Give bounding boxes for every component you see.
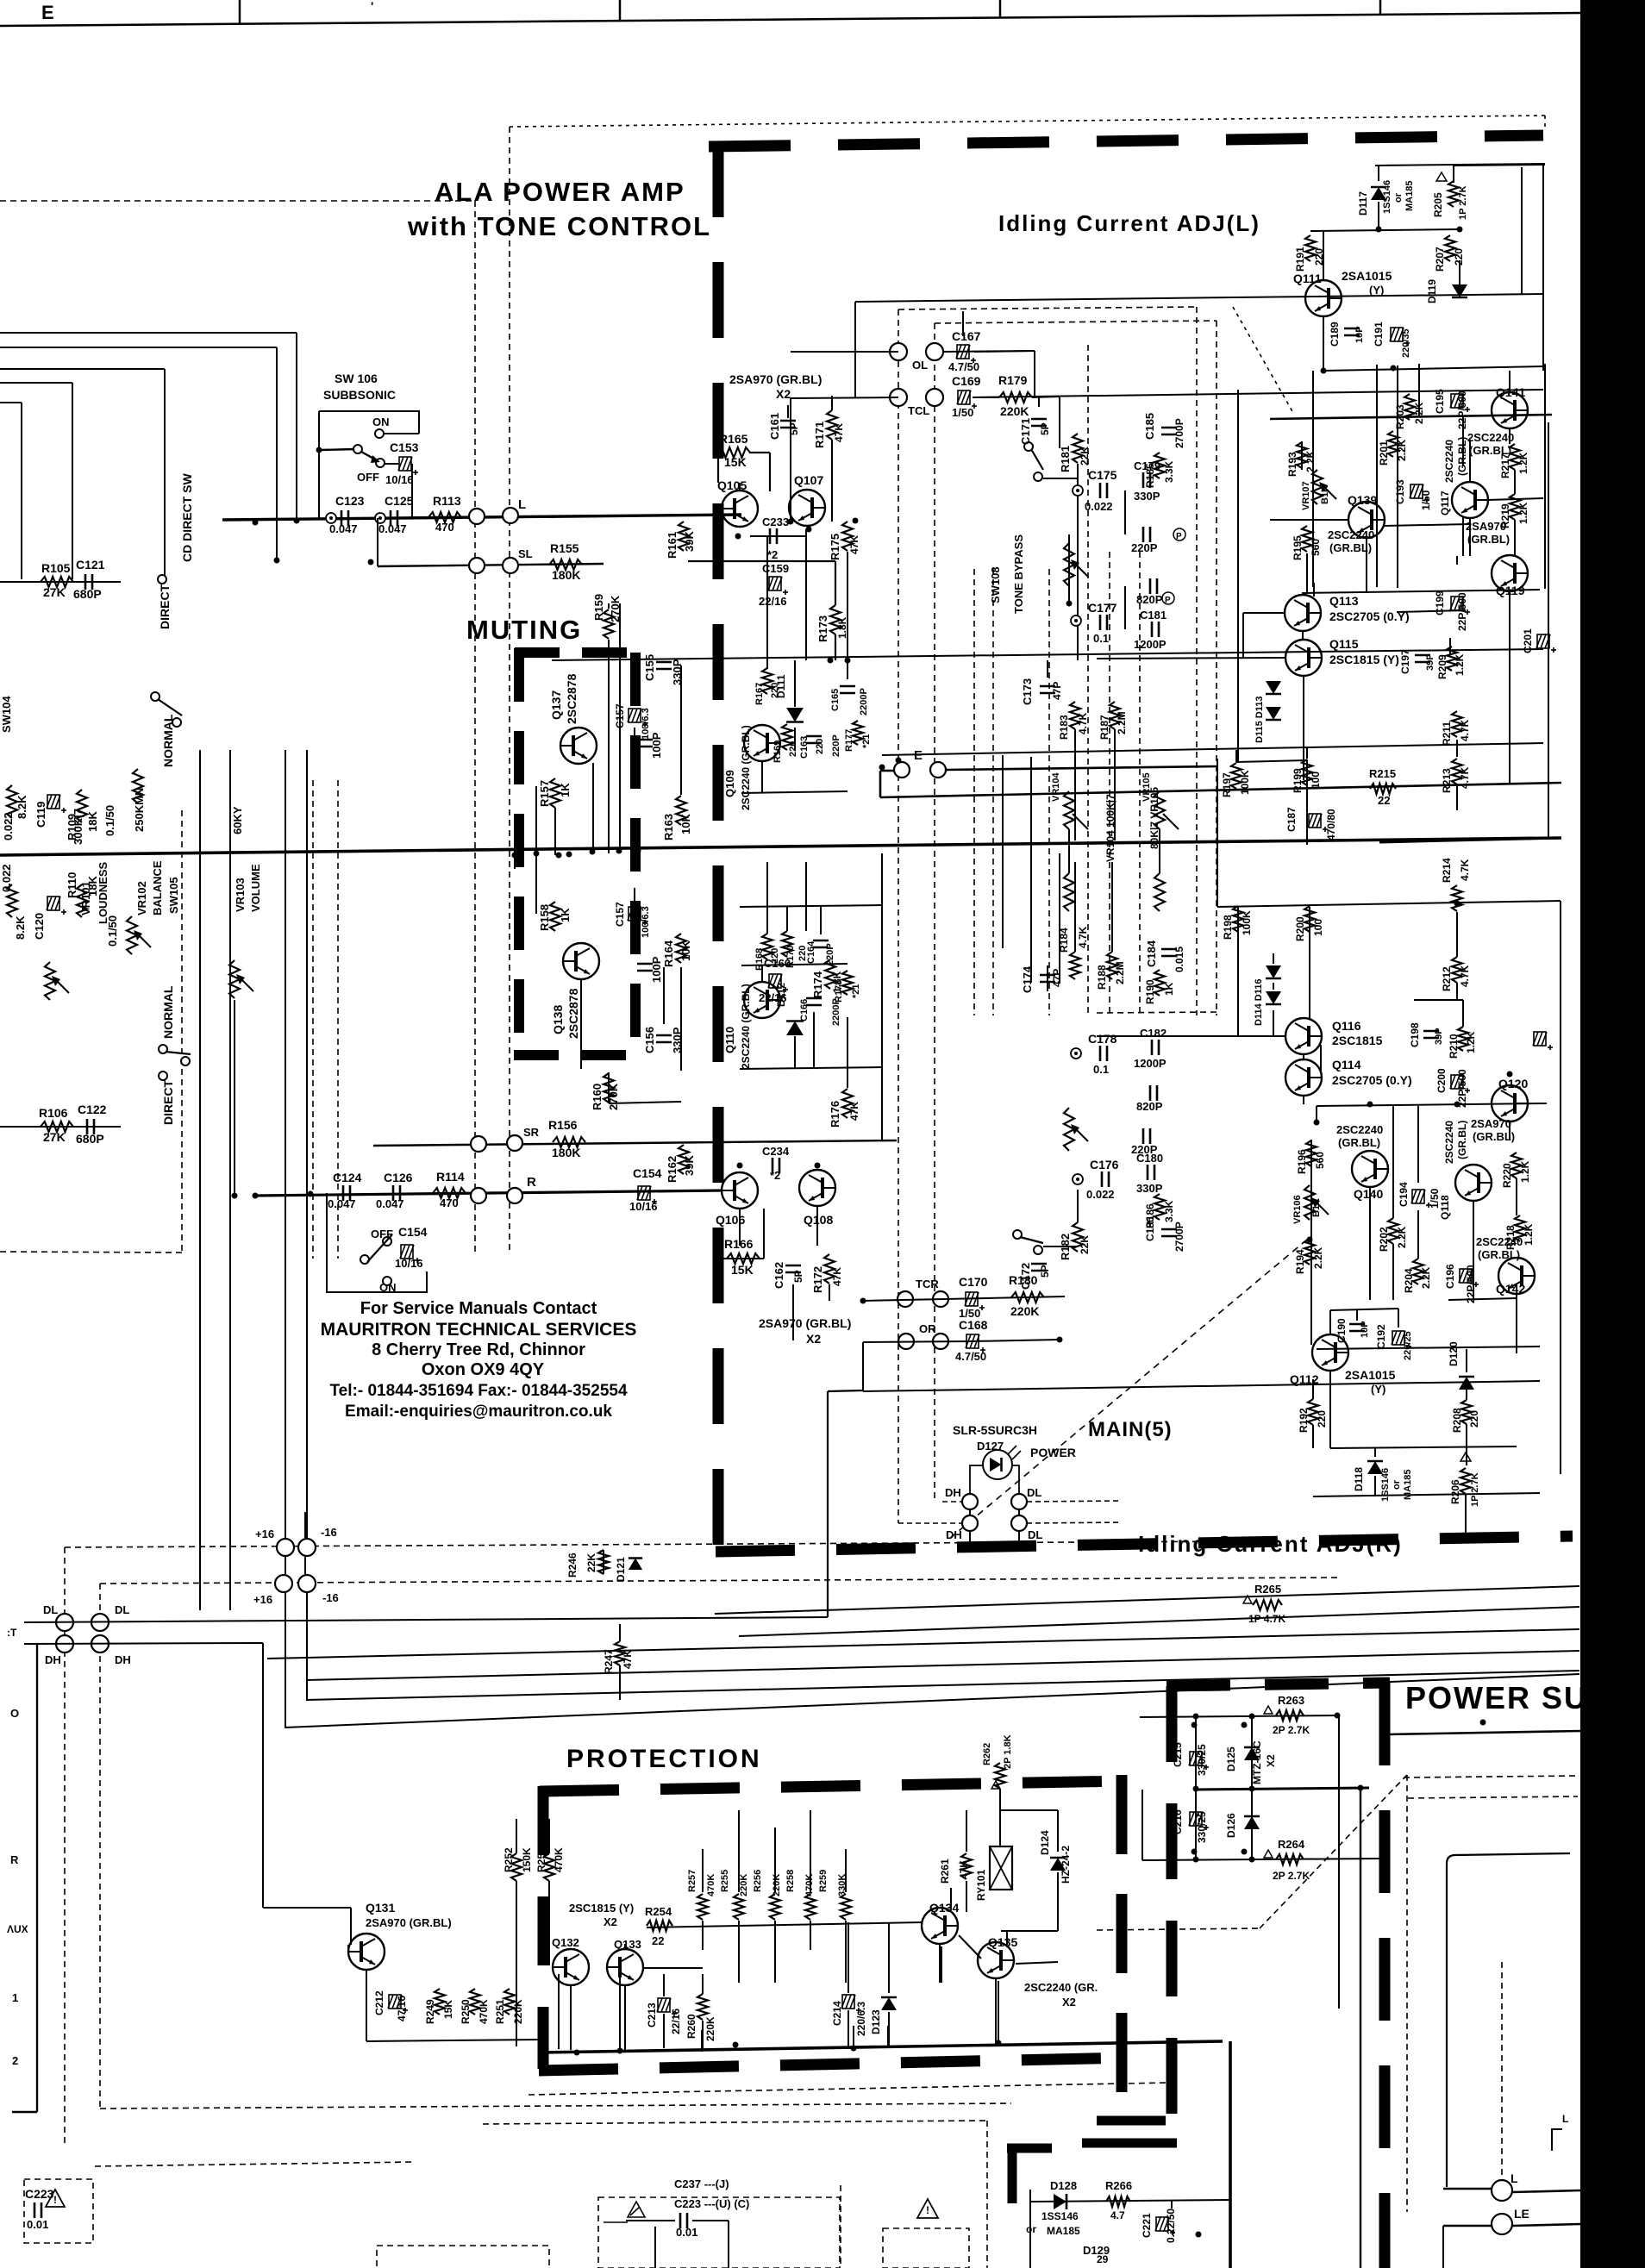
svg-text:P: P — [1165, 596, 1171, 605]
svg-text:100P: 100P — [650, 956, 663, 983]
wire v pot col — [1068, 534, 1070, 603]
tone box diagonal hatch — [1233, 307, 1293, 413]
wire q135 emit — [995, 1977, 997, 2045]
junction dot 23 — [1314, 1120, 1320, 1126]
resistor R114 — [433, 1188, 466, 1198]
transistor Q119 — [1492, 555, 1528, 591]
svg-text:680P: 680P — [76, 1132, 104, 1146]
transistor Q140 — [1352, 1151, 1388, 1187]
muting box left edge — [514, 648, 524, 1059]
svg-text:220: 220 — [1316, 1410, 1328, 1428]
svg-text:C197: C197 — [1399, 649, 1411, 674]
wire c167 down — [1034, 351, 1035, 397]
svg-text:60KY: 60KY — [231, 806, 244, 834]
dashed box C237 — [598, 2197, 840, 2268]
capacitor C124 — [342, 1185, 345, 1201]
capacitor C165 — [840, 685, 855, 688]
muting box bottom edge — [514, 1050, 644, 1060]
resistor R260 — [697, 1994, 708, 2020]
wire muting v4 — [619, 603, 621, 853]
wire r206 down — [1465, 1494, 1467, 1540]
transistor Q113 — [1285, 595, 1321, 631]
svg-text:L: L — [1511, 2171, 1518, 2185]
svg-text:(GR.BL): (GR.BL) — [1329, 541, 1372, 554]
capacitor C156 — [656, 1034, 672, 1037]
svg-text:2SA970: 2SA970 — [1471, 1117, 1511, 1130]
svg-text:2SA970: 2SA970 — [1466, 520, 1506, 533]
svg-text:1200P: 1200P — [1134, 638, 1167, 651]
power amp box left edge — [713, 141, 724, 1550]
junction dot 9 — [853, 518, 859, 524]
svg-text:R165: R165 — [719, 432, 748, 446]
wire protection r258 down — [810, 1921, 811, 1950]
resistor R164 — [676, 934, 686, 963]
svg-text:220/6.3: 220/6.3 — [855, 2002, 867, 2036]
wire v tone6 — [805, 862, 807, 931]
junction dot 13 — [879, 765, 885, 771]
capacitor C189 — [1344, 328, 1360, 330]
junction dot 28 — [1376, 227, 1382, 233]
svg-text:2SC2240: 2SC2240 — [1443, 440, 1455, 483]
svg-text:R194: R194 — [1294, 1249, 1306, 1274]
svg-text:1P 2.7K: 1P 2.7K — [1458, 185, 1468, 220]
svg-text:Q117: Q117 — [1439, 490, 1451, 515]
dashed vertical D129 box — [840, 2185, 841, 2268]
wire r172 col — [829, 1284, 830, 1301]
svg-text:R186: R186 — [1144, 1203, 1156, 1228]
svg-text:VR101: VR101 — [79, 881, 92, 915]
svg-text:15K: 15K — [731, 1263, 754, 1277]
capacitor C191 — [1390, 328, 1410, 346]
resistor R207 — [1445, 235, 1455, 261]
svg-text:R249: R249 — [424, 1999, 436, 2024]
wire q142 bot — [1516, 1293, 1517, 1353]
svg-text:10P: 10P — [1360, 1321, 1370, 1338]
svg-text:220K: 220K — [1010, 1304, 1039, 1318]
wire r159 col — [608, 640, 610, 853]
svg-text:CD DIRECT SW: CD DIRECT SW — [180, 473, 194, 562]
svg-text:with TONE CONTROL: with TONE CONTROL — [407, 211, 711, 241]
pot VR106 — [1304, 1185, 1315, 1220]
SL signal wire — [378, 564, 604, 566]
left vertical bus 1 — [199, 750, 201, 1610]
wire r205 col — [1453, 166, 1454, 183]
dashed DL2 link right — [1027, 1522, 1121, 1523]
svg-text:220/25: 220/25 — [1403, 1331, 1413, 1360]
svg-text:D114 D116: D114 D116 — [1254, 979, 1264, 1026]
svg-text:1K: 1K — [559, 908, 572, 922]
upper heavy rail — [880, 783, 1561, 797]
terminal L row 2 — [503, 508, 518, 523]
svg-text:C154: C154 — [398, 1225, 428, 1239]
capacitor C120 — [47, 897, 66, 915]
wire r196 vr106 r194 col — [1310, 1166, 1312, 1345]
svg-text:220K: 220K — [772, 1874, 782, 1896]
svg-text:C185: C185 — [1143, 413, 1156, 440]
svg-text:1P 2.7K: 1P 2.7K — [1470, 1472, 1480, 1507]
wire right rail q141 — [1548, 422, 1549, 838]
svg-text:220K: 220K — [739, 1874, 749, 1896]
svg-text:C181: C181 — [1140, 609, 1167, 622]
wire d123 top — [888, 1922, 890, 1993]
svg-text:C153: C153 — [390, 440, 419, 454]
wire R181 lower col — [1059, 853, 1060, 983]
transistor Q115 — [1285, 640, 1322, 676]
svg-text:*2: *2 — [770, 1169, 780, 1182]
capacitor C199 — [1450, 597, 1470, 615]
svg-text:Q138: Q138 — [551, 1005, 565, 1034]
wire c166 col — [813, 1012, 815, 1069]
svg-text:47P: 47P — [1051, 682, 1063, 700]
wire right rail top r — [1217, 901, 1561, 907]
dashed line left of power amp — [0, 200, 475, 202]
svg-text:MUTING: MUTING — [466, 615, 582, 645]
terminal DH 1 — [962, 1494, 978, 1509]
wire r199 col — [1306, 759, 1308, 810]
transistor Q117 — [1452, 482, 1488, 518]
resistor R196 — [1306, 1140, 1317, 1166]
svg-text:1SS146: 1SS146 — [1380, 1468, 1391, 1502]
resistor R163 — [676, 796, 686, 825]
d128 box top right — [1171, 2200, 1173, 2209]
svg-text:820P: 820P — [1136, 1100, 1163, 1113]
wire tone r channel v1 — [1002, 853, 1004, 948]
dashed route PS 1 — [1097, 1928, 1260, 1930]
transistor Q134 — [922, 1908, 958, 1944]
svg-text:2200P: 2200P — [859, 688, 869, 715]
wire protection r257 down — [702, 1921, 704, 1950]
wire d124 down — [1057, 1872, 1059, 1931]
wire below OR — [863, 1381, 1540, 1391]
junction dot 3 — [274, 558, 280, 564]
junction dot 40 — [1242, 1722, 1248, 1728]
left vert wire bottom — [36, 1644, 38, 2112]
svg-text:!: ! — [926, 2204, 929, 2216]
wire v c177 col — [1124, 586, 1126, 629]
svg-text:R: R — [527, 1175, 536, 1190]
wire protection r259 down — [845, 1921, 847, 1983]
svg-text:MAIN(5): MAIN(5) — [1088, 1418, 1173, 1441]
capacitor C196 — [1459, 1269, 1479, 1287]
dashed route PS vertical — [1406, 1775, 1408, 2212]
power supply box bottom corner bar — [1082, 2139, 1177, 2148]
capacitor C200 — [1450, 1075, 1470, 1093]
wire mid v r196 — [1310, 1140, 1312, 1166]
svg-text:E: E — [914, 748, 923, 763]
pot 250KMN — [133, 769, 143, 803]
svg-text:C190: C190 — [1335, 1318, 1348, 1343]
resistor R249 — [435, 1989, 445, 2015]
terminal SL row 1 — [469, 558, 485, 573]
svg-text:470K: 470K — [706, 1874, 716, 1896]
wire q117 up — [1469, 440, 1471, 483]
wire q116 q114 col — [1303, 1053, 1304, 1060]
svg-text:C167: C167 — [952, 329, 981, 343]
wire r182 up — [1077, 1190, 1079, 1222]
svg-text:C237 ---(J): C237 ---(J) — [674, 2177, 729, 2190]
svg-text:R110: R110 — [66, 872, 78, 898]
svg-text:22/16: 22/16 — [759, 595, 787, 608]
wire q113 q115 col — [1302, 630, 1304, 640]
wire y890 verticals a — [1002, 755, 1004, 853]
svg-text:22K: 22K — [1079, 1235, 1091, 1254]
bottom bus 1 — [715, 1586, 1579, 1614]
wire c162 col — [792, 1284, 794, 1301]
dashed bottom left vertical 1 — [64, 1547, 66, 2146]
svg-text:C221: C221 — [1141, 2213, 1153, 2238]
svg-text:R260: R260 — [685, 2014, 697, 2039]
wire OR col down — [827, 1391, 829, 1617]
capacitor C179 — [1142, 472, 1145, 488]
wire q133 coll — [624, 1944, 626, 1950]
junction dot 20 — [860, 1298, 866, 1304]
bottom bus 6 — [285, 1674, 1579, 1728]
wire muting r164 col — [663, 967, 665, 1024]
svg-text:100/6.3: 100/6.3 — [641, 708, 651, 740]
svg-text:R206: R206 — [1449, 1479, 1461, 1504]
svg-text:2SC2878: 2SC2878 — [565, 673, 579, 724]
warning triangle c223 mid — [628, 2202, 645, 2217]
svg-text:LOUDNESS: LOUDNESS — [97, 861, 109, 924]
svg-text:R169: R169 — [772, 740, 783, 763]
wire v r187 col — [1114, 729, 1116, 840]
wire v 1646 — [1418, 364, 1420, 417]
wire v tone3 — [790, 398, 791, 522]
wire q139 base — [1270, 519, 1349, 521]
svg-text:R253: R253 — [535, 1847, 547, 1872]
wire vr105 arrow — [1163, 814, 1179, 829]
svg-text:Q139: Q139 — [1348, 493, 1377, 507]
resistor R253 — [544, 1853, 554, 1881]
svg-text:29: 29 — [1097, 2253, 1109, 2265]
transistor Q137 — [560, 728, 597, 764]
wire prot bottom2 — [619, 1974, 621, 2050]
resistor R155 — [549, 559, 582, 570]
resistor R110 — [77, 884, 87, 917]
transistor Q107 — [789, 490, 825, 526]
triangle R263 — [1264, 1706, 1273, 1714]
capacitor C193 — [1410, 484, 1429, 503]
transistor Q105 — [722, 490, 758, 527]
wire q110 emitter — [761, 965, 763, 983]
bracket top right — [1552, 2129, 1562, 2151]
svg-text:C154: C154 — [633, 1166, 662, 1180]
svg-text:R113: R113 — [433, 494, 461, 508]
capacitor C184 — [1161, 948, 1177, 951]
wire v q140 col — [1369, 1186, 1371, 1241]
svg-text:1.8K: 1.8K — [831, 971, 843, 993]
resistor R194 — [1304, 1239, 1315, 1265]
mid tone rail — [552, 649, 1543, 660]
svg-text:R254: R254 — [645, 1905, 672, 1918]
wire r166 row — [722, 1258, 764, 1259]
junction dot 10 — [788, 519, 794, 525]
junction dot 27 — [1507, 1072, 1513, 1078]
svg-text:VR103: VR103 — [234, 878, 247, 912]
terminal -16 a — [298, 1539, 316, 1556]
wire q115 row — [1097, 658, 1285, 659]
svg-text:TCL: TCL — [908, 404, 929, 417]
ps junction dots — [1193, 1714, 1199, 1720]
wire c171 r179 — [1038, 397, 1040, 407]
svg-text:SW 106: SW 106 — [335, 372, 378, 385]
wire left C158 down — [634, 926, 635, 941]
svg-text:DH: DH — [115, 1653, 131, 1666]
capacitor C155 — [656, 661, 672, 664]
switch subsonic — [375, 429, 384, 438]
svg-text:1.2K: 1.2K — [1519, 1160, 1531, 1183]
capacitor C181 — [1151, 622, 1154, 637]
svg-text:0.047: 0.047 — [376, 1197, 404, 1210]
wire L corner — [1447, 1853, 1570, 2187]
tone box dashed vertical 4 — [1216, 321, 1217, 1015]
wire nest vert 1 — [296, 333, 297, 521]
bottom bus 5 — [306, 1671, 1579, 1700]
wire tone left v — [854, 302, 856, 397]
svg-text:4.7K: 4.7K — [1459, 965, 1471, 987]
junction dot 25 — [1307, 1237, 1313, 1243]
terminal SR row 2 — [507, 1135, 522, 1151]
muting box right edge — [630, 653, 641, 1059]
svg-text:C160: C160 — [764, 957, 791, 970]
capacitor C173 — [1040, 685, 1055, 688]
resistor R255 — [734, 1894, 744, 1920]
svg-text:R195: R195 — [1292, 535, 1304, 560]
subsonic R box — [327, 1193, 427, 1292]
resistor R198 — [1233, 906, 1243, 932]
wire nest vert 5 — [21, 403, 22, 579]
svg-text:47/16: 47/16 — [396, 1996, 408, 2021]
svg-text:X2: X2 — [806, 1332, 821, 1346]
svg-text:SR: SR — [523, 1126, 540, 1139]
transistor Q120 — [1492, 1085, 1528, 1122]
junction dot 2 — [368, 559, 374, 565]
capacitor C164 — [813, 940, 829, 942]
wire r181 down — [1077, 464, 1079, 660]
pot VR107 — [1312, 470, 1323, 504]
svg-text:27K: 27K — [43, 1130, 66, 1144]
wire pot r col vr105 — [1159, 853, 1160, 873]
muting box top edge — [515, 647, 640, 658]
wire OR row — [863, 1341, 973, 1342]
svg-text:220: 220 — [1468, 1410, 1480, 1428]
svg-text:SW105: SW105 — [167, 877, 180, 914]
svg-text:Q142: Q142 — [1496, 1282, 1525, 1296]
wire c187 join — [1306, 783, 1308, 845]
resistor R188 — [1107, 952, 1117, 979]
svg-text:R213: R213 — [1441, 768, 1453, 793]
resistor R192 — [1308, 1399, 1318, 1425]
svg-text:2SA970 (GR.BL): 2SA970 (GR.BL) — [366, 1916, 452, 1929]
terminal OR 1 — [898, 1334, 914, 1349]
wire v c167 col — [962, 311, 964, 336]
title strip divider line — [0, 13, 1580, 26]
svg-text:R214: R214 — [1441, 858, 1453, 883]
wire v 1621 — [1397, 366, 1398, 588]
svg-text:C168: C168 — [959, 1318, 988, 1332]
capacitor C163 — [806, 735, 822, 738]
resistor R206 — [1460, 1468, 1471, 1494]
junction dot 12 — [845, 658, 851, 664]
junction dot 45 — [512, 853, 518, 859]
wire r212 r214 col — [1456, 983, 1458, 1000]
junction dot 29 — [1457, 227, 1463, 233]
wire mid rail r — [1316, 1106, 1317, 1122]
wire q134 v — [941, 1946, 942, 1983]
svg-text:0.022: 0.022 — [0, 864, 13, 892]
svg-text:470: 470 — [440, 1196, 459, 1209]
power amp box top edge — [709, 135, 1543, 147]
svg-text:100K: 100K — [1239, 770, 1251, 795]
svg-text:1.2K: 1.2K — [1517, 452, 1529, 474]
wire r213 down — [1456, 786, 1458, 810]
warning triangle left — [46, 2190, 65, 2207]
bottom bus 2 — [739, 1607, 1579, 1636]
wire v r183 col — [1074, 729, 1076, 840]
capacitor C234 — [772, 1158, 774, 1173]
svg-text:R256: R256 — [753, 1870, 763, 1892]
svg-text:2SC1815: 2SC1815 — [1332, 1034, 1383, 1047]
capacitor C223 mid — [679, 2213, 682, 2228]
capacitor C154 switch — [400, 1245, 420, 1263]
wire tone r rail2 — [740, 905, 882, 907]
svg-text:DH: DH — [945, 1486, 961, 1499]
resistor R203 — [1404, 394, 1415, 420]
svg-text:39P: 39P — [1434, 1028, 1444, 1045]
wire right top corner — [1521, 167, 1523, 295]
dashed DH link — [942, 1501, 962, 1503]
svg-text:2SC2240: 2SC2240 — [1467, 431, 1514, 444]
svg-text:0.1: 0.1 — [1093, 1063, 1109, 1076]
resistor R186 — [1154, 1194, 1165, 1220]
wire e row left — [880, 770, 894, 772]
resistor 8.2K lower — [7, 884, 17, 917]
svg-text:R166: R166 — [724, 1237, 754, 1251]
junction dot 15 — [232, 1193, 238, 1199]
svg-text:R174: R174 — [811, 971, 824, 998]
svg-text:BALANCE: BALANCE — [151, 860, 164, 915]
warning triangle mid — [917, 2199, 938, 2218]
svg-text:C184: C184 — [1145, 940, 1158, 967]
svg-text:250KMN: 250KMN — [133, 788, 146, 832]
wire r192 down — [1312, 1425, 1314, 1448]
wire d120 r208 col — [1466, 1390, 1467, 1400]
LED D127 — [983, 1450, 1012, 1479]
svg-text:C157: C157 — [614, 902, 626, 927]
wire vr105 pot — [1154, 791, 1165, 829]
svg-text:*2: *2 — [767, 548, 778, 561]
junction dot 33 — [574, 2050, 580, 2056]
wire DL row — [24, 1617, 828, 1622]
svg-text:R202: R202 — [1378, 1227, 1390, 1252]
svg-text:8.2K: 8.2K — [16, 795, 28, 819]
transistor Q109 — [744, 725, 780, 761]
dashed column vr d — [1087, 345, 1089, 1015]
wire L right — [1512, 2190, 1580, 2192]
svg-text:C213: C213 — [646, 2002, 658, 2027]
wire q110 rail — [741, 964, 848, 965]
svg-text:0.047: 0.047 — [329, 522, 358, 535]
terminal TCL 1 — [890, 389, 907, 406]
wire q107 c161 — [787, 405, 789, 418]
cap C175 terminal — [1073, 485, 1083, 496]
terminal LE br — [1492, 2214, 1512, 2234]
svg-text:L: L — [518, 497, 526, 512]
svg-text:2SC2240: 2SC2240 — [1328, 528, 1374, 541]
svg-text:VR102: VR102 — [135, 881, 148, 915]
resistor R205 — [1448, 181, 1459, 207]
wire muting v5 — [680, 665, 682, 795]
